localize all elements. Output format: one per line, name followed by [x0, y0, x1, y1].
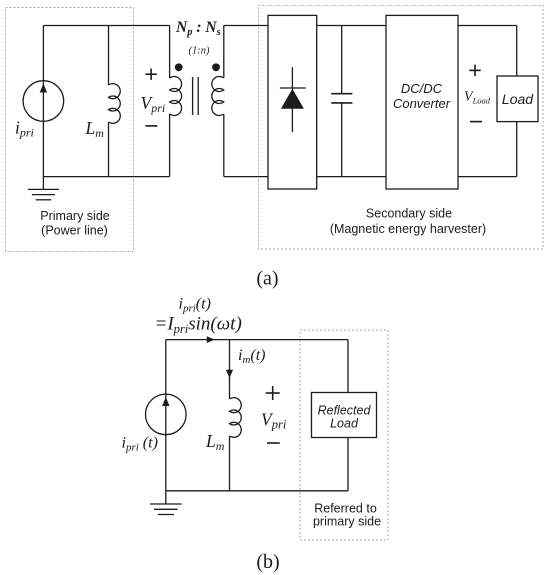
svg-text:Lm: Lm — [85, 118, 105, 140]
polarity dot secondary — [212, 63, 220, 71]
svg-text:Primary side: Primary side — [40, 209, 110, 223]
wire: middle vertical top (b) — [229, 340, 231, 399]
wire: load top vertical — [516, 26, 518, 77]
wire: top rail (b) — [166, 339, 348, 341]
wire: top rail primary (a) — [43, 25, 169, 27]
svg-text:Lm: Lm — [205, 431, 225, 453]
minus sign Vpri (a) — [145, 125, 157, 127]
polarity dot primary — [175, 63, 183, 71]
svg-text:ipri: ipri — [15, 118, 34, 140]
wire: right vertical bottom (b) — [347, 438, 349, 491]
wire: right vertical top (b) — [347, 340, 349, 393]
svg-text:Reflected: Reflected — [318, 404, 372, 418]
ground symbol (b) — [150, 491, 182, 515]
DC/DC converter box U1 — [386, 15, 458, 189]
minus sign VLoad — [470, 121, 482, 123]
svg-text:Secondary side: Secondary side — [366, 207, 452, 221]
wire: DC/DC to load top rail — [458, 25, 517, 27]
arrow i_pri on top rail (b) — [207, 336, 215, 343]
plus sign VLoad — [469, 65, 480, 76]
dashed boundary: secondary side — [259, 6, 544, 250]
svg-text:primary side: primary side — [313, 515, 381, 529]
svg-text:Vpri: Vpri — [141, 93, 166, 115]
dashed boundary: referred to primary side — [300, 330, 388, 540]
current source I2 circle (b) — [146, 394, 187, 435]
wire: load bottom vertical — [516, 122, 518, 177]
current source I1 arrow — [40, 84, 47, 93]
svg-text:Load: Load — [330, 417, 359, 431]
wire: rectifier to DC/DC bottom rail — [317, 176, 386, 178]
svg-text:ipri (t): ipri (t) — [122, 435, 158, 454]
wire: left vertical branch (a) through source — [42, 26, 44, 177]
svg-text:Converter: Converter — [393, 96, 451, 111]
svg-text:ipri(t): ipri(t) — [179, 296, 211, 315]
plus sign Vpri (b) — [266, 386, 280, 400]
wire: bottom rail (b) — [166, 490, 348, 492]
svg-text:=Iprisin(ωt): =Iprisin(ωt) — [155, 314, 242, 337]
arrow i_m on middle branch (b) — [226, 370, 233, 378]
load box R1 — [497, 76, 538, 122]
rectifier box — [268, 15, 317, 189]
wire: secondary top to rectifier — [224, 25, 268, 27]
svg-text:VLoad: VLoad — [464, 90, 491, 106]
svg-text:(b): (b) — [256, 551, 279, 573]
transformer T1 primary winding — [170, 26, 182, 177]
transformer T1 core — [193, 77, 199, 115]
wire: bottom rail primary (a) — [43, 176, 169, 178]
plus sign Vpri (a) — [145, 69, 156, 80]
wire: secondary bottom to rectifier — [224, 176, 268, 178]
minus sign Vpri (b) — [267, 442, 280, 444]
wire: DC/DC to load bottom rail — [458, 176, 517, 178]
current source I1 i_pri circle — [23, 81, 64, 122]
current source I2 arrow (b) — [162, 397, 169, 406]
transformer T1 secondary winding — [212, 26, 224, 177]
svg-text:(1:n): (1:n) — [189, 46, 210, 57]
svg-text:Load: Load — [502, 91, 534, 107]
svg-text:(Magnetic energy harvester): (Magnetic energy harvester) — [330, 222, 486, 236]
svg-text:im(t): im(t) — [238, 347, 266, 366]
wire: left vertical branch (b) — [165, 340, 167, 491]
dashed boundary: primary side — [6, 8, 134, 252]
capacitor C1 — [331, 26, 352, 177]
svg-text:Referred to: Referred to — [314, 502, 377, 516]
svg-text:DC/DC: DC/DC — [401, 81, 443, 96]
ground symbol (a) — [28, 177, 59, 200]
svg-text:(Power line): (Power line) — [41, 224, 108, 238]
svg-text:Np : Ns: Np : Ns — [175, 19, 221, 38]
svg-text:Vpri: Vpri — [261, 410, 287, 432]
svg-text:(a): (a) — [256, 268, 278, 290]
diode D1 — [280, 67, 306, 132]
reflected load box R2 — [312, 393, 377, 438]
inductor Lm (b) — [230, 398, 242, 491]
wire: rectifier to DC/DC top rail — [317, 25, 386, 27]
inductor Lm (a) — [109, 26, 121, 177]
